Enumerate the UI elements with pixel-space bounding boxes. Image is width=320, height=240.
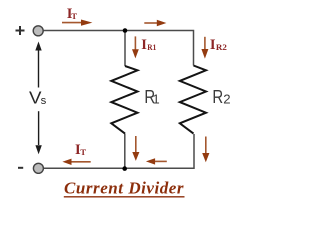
- node junction top: [123, 28, 128, 33]
- svg-text:2: 2: [223, 92, 230, 107]
- svg-text:R1: R1: [147, 42, 156, 52]
- current arrow IR1 down: [134, 36, 136, 50]
- plus sign: [16, 26, 25, 35]
- svg-text:R2: R2: [216, 42, 228, 52]
- svg-text:1: 1: [152, 92, 159, 107]
- wire top: + terminal to top-right corner and down to R2: [44, 31, 194, 66]
- current arrow left on bottom wire: [154, 160, 167, 162]
- current arrow IR2 down: [204, 37, 206, 50]
- current arrow down below R1: [135, 136, 137, 153]
- svg-text:Current Divider: Current Divider: [64, 179, 184, 198]
- terminal + (positive): [33, 26, 43, 36]
- svg-text:T: T: [80, 147, 86, 157]
- minus sign: [18, 167, 23, 169]
- resistor R1: [111, 66, 137, 134]
- wire bottom: - terminal to bottom-right corner and up to R2 bottom: [44, 134, 194, 168]
- svg-text:R: R: [212, 86, 223, 107]
- source arrow down (to - terminal): [38, 111, 40, 145]
- current arrow IT bottom (left): [70, 161, 91, 163]
- source arrow up (to + terminal): [38, 50, 40, 88]
- current arrow top-right (toward R2): [144, 22, 157, 24]
- wire branch R1 top lead: [124, 31, 126, 67]
- title underline: [64, 196, 185, 198]
- current arrow IT top: [62, 22, 82, 24]
- svg-text:s: s: [41, 95, 47, 107]
- resistor R2: [180, 66, 206, 134]
- terminal - (negative): [33, 163, 43, 173]
- svg-text:T: T: [71, 11, 77, 21]
- wire branch R1 bottom lead: [124, 134, 126, 169]
- current arrow down below R2: [205, 137, 207, 154]
- node junction bottom: [122, 166, 127, 171]
